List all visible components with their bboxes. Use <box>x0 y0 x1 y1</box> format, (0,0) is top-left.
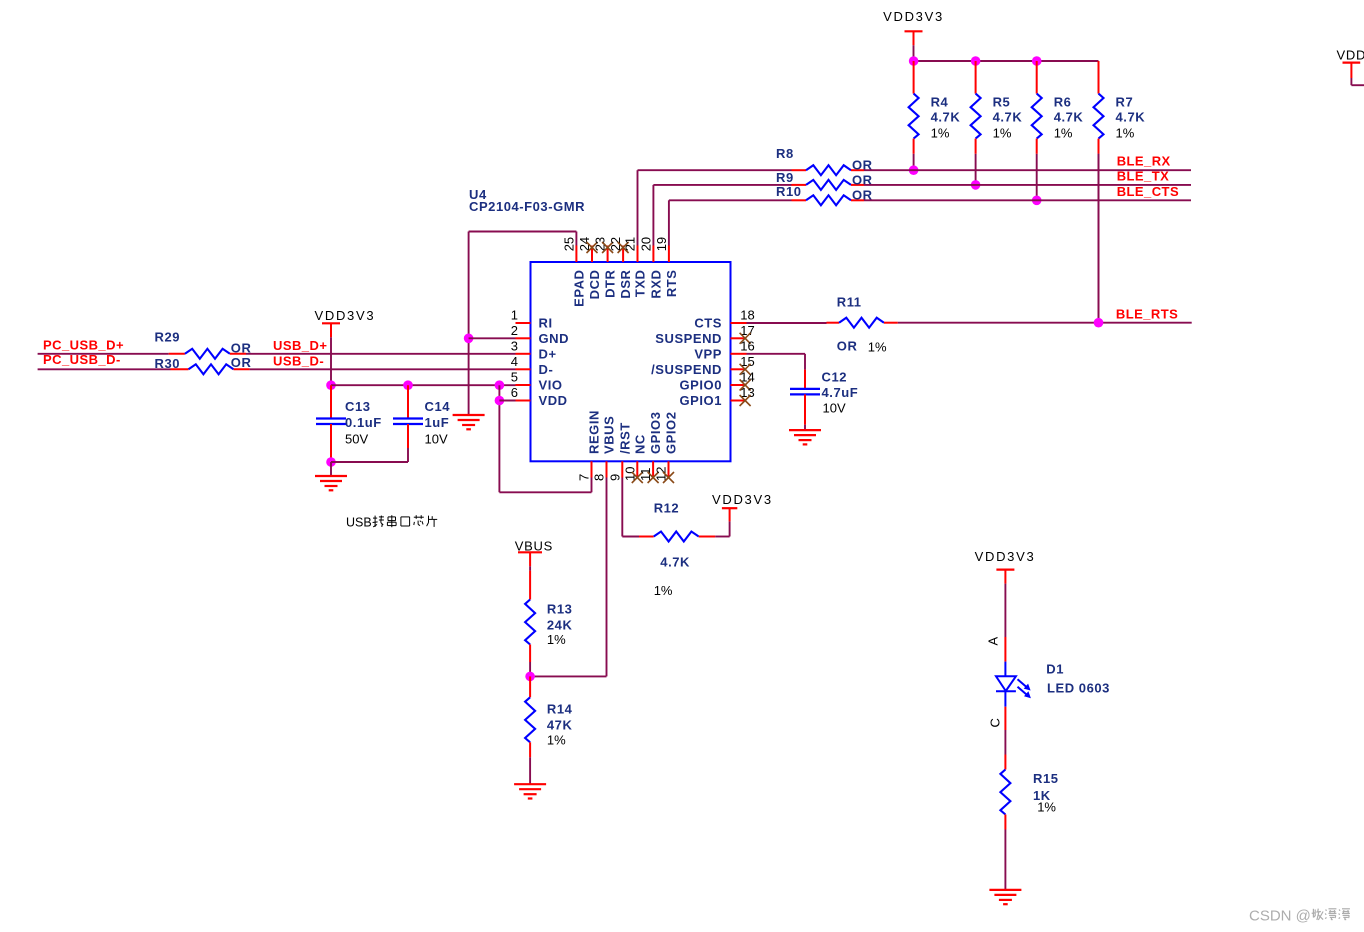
U4 pin 22 (DSR) <box>608 237 633 299</box>
net label PC_USB_D+ <box>43 338 124 353</box>
svg-text:1uF: 1uF <box>425 415 450 430</box>
svg-text:NC: NC <box>632 434 647 454</box>
pin label C <box>988 718 1003 727</box>
svg-text:20: 20 <box>638 237 653 251</box>
resistor R8 <box>776 146 873 175</box>
wire VDD3V3 down to VIO line <box>330 337 332 385</box>
svg-text:4.7K: 4.7K <box>1054 110 1084 125</box>
svg-text:VBUS: VBUS <box>602 416 617 454</box>
U4 pin 3 (D+) <box>511 339 557 362</box>
svg-text:VPP: VPP <box>694 346 722 361</box>
power VDD3V3 (top) <box>883 9 944 46</box>
wire C13-C14 bottom <box>331 461 408 463</box>
svg-text:1%: 1% <box>868 339 887 354</box>
resistor R12 <box>639 501 715 598</box>
resistor R10 <box>776 184 873 206</box>
svg-text:C13: C13 <box>345 399 371 414</box>
wire R15 to ground <box>1004 830 1006 890</box>
svg-text:USB_D+: USB_D+ <box>273 338 327 353</box>
svg-text:REGIN: REGIN <box>587 410 602 454</box>
svg-text:CP2104-F03-GMR: CP2104-F03-GMR <box>469 199 585 214</box>
svg-text:USB_D-: USB_D- <box>273 353 324 368</box>
wire BLE_TX <box>864 184 1191 186</box>
U4 pin 19 (RTS) <box>654 237 679 297</box>
svg-text:1%: 1% <box>931 125 950 140</box>
junction C14 tap <box>403 380 413 390</box>
svg-text:SUSPEND: SUSPEND <box>655 331 722 346</box>
svg-text:R10: R10 <box>776 184 802 199</box>
U4 pin 1 (RI) <box>511 308 553 331</box>
wire VDD exits right <box>1351 78 1364 85</box>
svg-text:/RST: /RST <box>617 422 632 454</box>
svg-text:C12: C12 <box>822 370 848 385</box>
net label BLE_RX <box>1117 154 1171 169</box>
U4 pin 20 (RXD) <box>638 237 663 299</box>
U4 pin 13 (GPIO1) <box>680 385 755 408</box>
U4 pin 15 (/SUSPEND) <box>651 354 755 377</box>
resistor R9 <box>776 170 873 190</box>
junction VIO/REGIN tap <box>495 380 505 390</box>
svg-text:R29: R29 <box>155 330 181 345</box>
U4 pin 6 (VDD) <box>511 385 568 408</box>
U4 pin 2 (GND) <box>511 323 569 346</box>
junction R13/R14 <box>525 672 535 682</box>
svg-text:24K: 24K <box>547 618 573 633</box>
junction R5/BLE_TX <box>971 180 981 190</box>
net label PC_USB_D- <box>43 352 121 367</box>
power VDD3V3 (R12) <box>712 492 773 521</box>
svg-text:4.7K: 4.7K <box>931 110 961 125</box>
svg-text:1%: 1% <box>1054 125 1073 140</box>
IC U4 CP2104-F03-GMR body <box>469 187 731 461</box>
U4 pin 21 (TXD) <box>623 237 648 297</box>
wire /RST to R12 <box>622 478 639 537</box>
svg-text:GPIO0: GPIO0 <box>680 378 723 393</box>
svg-text:VDD3V3: VDD3V3 <box>975 549 1036 564</box>
wire VIO line <box>331 384 516 386</box>
svg-text:LED 0603: LED 0603 <box>1047 680 1110 695</box>
svg-text:USB: USB <box>346 516 372 530</box>
resistor R6 <box>1032 61 1084 200</box>
svg-text:R6: R6 <box>1054 94 1072 109</box>
svg-text:BLE_RX: BLE_RX <box>1117 154 1171 169</box>
svg-text:DSR: DSR <box>618 269 633 298</box>
svg-text:R4: R4 <box>931 94 949 109</box>
svg-text:RXD: RXD <box>648 270 663 299</box>
svg-text:9: 9 <box>607 474 622 481</box>
resistor R14 <box>525 676 573 757</box>
capacitor C12 <box>790 370 858 425</box>
svg-text:16: 16 <box>740 339 754 354</box>
wire EPAD net (pin25 top-left-down) <box>469 232 577 416</box>
wire pin2 GND <box>469 337 516 339</box>
svg-text:R14: R14 <box>547 701 573 716</box>
svg-text:R7: R7 <box>1116 94 1134 109</box>
U4 pin 5 (VIO) <box>511 370 563 393</box>
svg-text:BLE_CTS: BLE_CTS <box>1117 184 1179 199</box>
ground GND net <box>453 415 485 429</box>
U4 pin 23 (DTR) <box>593 237 618 298</box>
svg-text:0.1uF: 0.1uF <box>345 415 382 430</box>
junction R6/BLE_CTS <box>1032 196 1042 206</box>
svg-text:R5: R5 <box>993 94 1011 109</box>
U4 pin 14 (GPIO0) <box>680 370 755 393</box>
junction GND pin2 <box>464 334 474 344</box>
svg-text:1%: 1% <box>654 583 673 598</box>
svg-text:BLE_RTS: BLE_RTS <box>1116 306 1178 321</box>
wire VDD tap down to REGIN <box>499 385 591 492</box>
U4 pin 4 (D-) <box>511 354 554 377</box>
U4 pin 24 (DCD) <box>577 237 602 299</box>
wire PC_USB_D+ to R29 <box>38 353 169 355</box>
resistor R13 <box>525 571 572 662</box>
LED D1 <box>996 637 1110 707</box>
junction R4/BLE_RX <box>909 165 919 175</box>
svg-text:4.7K: 4.7K <box>660 554 690 569</box>
svg-text:OR: OR <box>231 355 252 370</box>
svg-text:19: 19 <box>654 237 669 251</box>
wire pullup bus <box>914 60 1099 62</box>
wire PC_USB_D- to R30 <box>38 368 171 370</box>
power VBUS <box>515 539 553 567</box>
wire CTS to R11 <box>747 322 827 324</box>
wire VDD3V3 to LED <box>1004 584 1006 637</box>
U4 pin 17 (SUSPEND) <box>655 323 754 346</box>
wire BLE_CTS <box>864 199 1191 201</box>
svg-text:8: 8 <box>592 474 607 481</box>
junction VIO/C13 <box>326 380 336 390</box>
watermark CSDN @shouwanwan <box>1249 908 1350 925</box>
capacitor C13 <box>316 385 382 462</box>
svg-text:TXD: TXD <box>633 270 648 298</box>
svg-text:1%: 1% <box>1116 125 1135 140</box>
svg-text:DCD: DCD <box>587 270 602 300</box>
svg-text:RTS: RTS <box>664 270 679 298</box>
junction R7/BLE_RTS <box>1094 318 1104 328</box>
svg-text:R30: R30 <box>155 356 181 371</box>
svg-text:1%: 1% <box>1037 799 1056 814</box>
junction bus R5 <box>971 56 981 66</box>
svg-text:4.7uF: 4.7uF <box>822 385 859 400</box>
U4 pin 7 (REGIN) <box>577 410 602 481</box>
svg-text:2: 2 <box>511 323 518 338</box>
net label BLE_RTS <box>1116 306 1178 321</box>
U4 pin 8 (VBUS) <box>592 416 617 481</box>
svg-text:/SUSPEND: /SUSPEND <box>651 362 722 377</box>
svg-text:A: A <box>986 637 1001 646</box>
svg-text:50V: 50V <box>345 432 368 447</box>
svg-text:VDD3V3: VDD3V3 <box>315 308 376 323</box>
svg-text:6: 6 <box>511 385 518 400</box>
svg-text:1%: 1% <box>993 125 1012 140</box>
svg-text:10V: 10V <box>425 432 448 447</box>
junction bus R6 <box>1032 56 1042 66</box>
svg-text:4: 4 <box>511 354 518 369</box>
net label BLE_CTS <box>1117 184 1179 199</box>
capacitor C14 <box>393 385 450 462</box>
resistor R7 <box>1094 61 1146 323</box>
svg-text:1%: 1% <box>547 732 566 747</box>
svg-text:CTS: CTS <box>694 316 722 331</box>
wire USB_D- to pin 4 <box>250 368 516 370</box>
U4 pin 10 (NC) <box>622 434 647 483</box>
svg-text:VDD: VDD <box>539 393 568 408</box>
svg-text:D1: D1 <box>1046 662 1064 677</box>
ground below C12 <box>789 425 821 445</box>
svg-text:3: 3 <box>511 339 518 354</box>
svg-text:R13: R13 <box>547 602 573 617</box>
svg-text:VIO: VIO <box>539 378 563 393</box>
svg-text:DTR: DTR <box>603 269 618 297</box>
svg-text:R8: R8 <box>776 146 794 161</box>
svg-text:21: 21 <box>623 237 638 251</box>
svg-text:CSDN @: CSDN @ <box>1249 908 1311 925</box>
svg-text:VDD3V3: VDD3V3 <box>712 492 773 507</box>
junction VDD pin6 <box>495 396 505 406</box>
U4 pin 9 (/RST) <box>607 422 632 481</box>
resistor R11 <box>827 295 898 355</box>
svg-text:10V: 10V <box>823 401 846 416</box>
wire BLE_RX from U4 <box>638 170 792 245</box>
power VDD (right edge) <box>1337 48 1364 78</box>
net label BLE_TX <box>1117 168 1170 183</box>
wire VPP to C12 <box>747 354 806 370</box>
wire R13 to junction <box>529 662 531 676</box>
svg-text:C14: C14 <box>425 399 451 414</box>
svg-text:R11: R11 <box>837 295 862 310</box>
wire BLE_CTS from U4 <box>669 200 792 245</box>
U4 pin 11 (GPIO3) <box>638 412 663 484</box>
svg-text:18: 18 <box>740 308 754 323</box>
svg-text:BLE_TX: BLE_TX <box>1117 168 1170 183</box>
wire LED cathode <box>1004 707 1006 755</box>
svg-text:GPIO3: GPIO3 <box>648 412 663 455</box>
wire BLE_RTS <box>898 322 1192 324</box>
wire VBUS to R13 <box>529 566 531 570</box>
svg-text:GPIO1: GPIO1 <box>680 393 723 408</box>
svg-text:VDD3V3: VDD3V3 <box>883 9 944 24</box>
annotation USB-to-serial chip (Chinese) <box>346 515 437 529</box>
net label USB_D- <box>273 353 324 368</box>
resistor R30 <box>155 355 252 374</box>
ground below C13 <box>315 462 347 490</box>
svg-text:1%: 1% <box>547 632 566 647</box>
ground below R15 <box>989 890 1021 904</box>
svg-text:C: C <box>988 718 1003 727</box>
svg-text:R15: R15 <box>1033 771 1059 786</box>
svg-text:R9: R9 <box>776 170 794 185</box>
wire R12 to VDD3V3 <box>715 521 729 536</box>
wire BLE_TX from U4 <box>653 185 791 246</box>
svg-text:R12: R12 <box>654 501 680 516</box>
svg-text:VDD: VDD <box>1337 48 1364 63</box>
svg-text:25: 25 <box>561 237 576 251</box>
svg-text:EPAD: EPAD <box>571 270 586 307</box>
wire R7 down to BLE_RTS <box>1098 154 1100 323</box>
svg-text:PC_USB_D+: PC_USB_D+ <box>43 338 124 353</box>
ground below R14 <box>514 784 546 798</box>
resistor R5 <box>971 61 1023 185</box>
U4 pin 12 (GPIO2) <box>654 412 679 484</box>
svg-text:D-: D- <box>539 362 554 377</box>
svg-text:7: 7 <box>577 474 592 481</box>
power VDD3V3 (LED) <box>975 549 1036 584</box>
wire pin6 VDD <box>499 400 515 402</box>
net label USB_D+ <box>273 338 327 353</box>
wire R14 to ground <box>529 757 531 784</box>
wire pin8 VBUS down <box>530 478 606 677</box>
svg-text:4.7K: 4.7K <box>1116 110 1146 125</box>
resistor R15 <box>1000 755 1058 830</box>
svg-text:RI: RI <box>539 316 553 331</box>
resistor R4 <box>909 61 961 170</box>
svg-text:GND: GND <box>539 331 570 346</box>
svg-text:5: 5 <box>511 370 518 385</box>
wire USB_D+ to pin 3 <box>246 353 516 355</box>
resistor R29 <box>155 330 252 359</box>
wire VDD3V3 stem to bus <box>913 45 915 61</box>
U4 pin 18 (CTS) <box>694 308 754 331</box>
U4 pin 16 (VPP) <box>694 339 754 362</box>
svg-text:D+: D+ <box>539 346 557 361</box>
power VDD3V3 (left) <box>315 308 376 338</box>
svg-text:GPIO2: GPIO2 <box>664 412 679 455</box>
junction bus R4 <box>909 56 919 66</box>
svg-text:4.7K: 4.7K <box>993 110 1023 125</box>
U4 pin 25 (EPAD) <box>561 237 586 307</box>
junction C13 bottom <box>326 457 336 467</box>
svg-text:1: 1 <box>511 308 518 323</box>
pin label A <box>986 637 1001 646</box>
svg-text:OR: OR <box>837 338 858 353</box>
wire BLE_RX <box>864 169 1191 171</box>
svg-text:47K: 47K <box>547 717 573 732</box>
